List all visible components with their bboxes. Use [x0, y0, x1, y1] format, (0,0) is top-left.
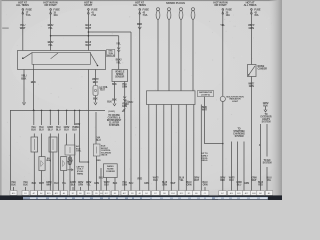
connector pin B14	[169, 191, 177, 196]
connector pin A8	[257, 191, 264, 196]
wire condenser left leg to connector	[106, 178, 108, 191]
connector pin B10	[85, 191, 92, 196]
wire coil feed from switch	[95, 70, 97, 86]
junction BLK/WHT at col5 wire	[222, 143, 224, 145]
inline connector arrow col4	[138, 27, 141, 29]
caption strip	[23, 197, 268, 200]
svg-text:BLK: BLK	[113, 183, 118, 185]
wire ignition switch down to connector	[87, 70, 89, 191]
wire distributor pin 6 to connector	[185, 105, 187, 191]
wire col4 RED full drop	[139, 13, 141, 190]
svg-text:RED: RED	[96, 160, 101, 162]
scan speckle texture	[6, 6, 278, 192]
svg-text:YEL/BLK: YEL/BLK	[11, 182, 16, 186]
svg-text:GRN: GRN	[94, 183, 99, 185]
wire distributor pin 1 to connector	[148, 105, 150, 191]
connector pin A1	[136, 191, 143, 196]
wire GRN/YEL bus to junction x88.4	[80, 110, 89, 162]
ignition switch outer housing	[18, 51, 106, 70]
wire bus drop 5	[66, 110, 68, 125]
in-line connector rings on idle control wire	[68, 157, 71, 160]
svg-text:BLU/WHT: BLU/WHT	[85, 23, 91, 30]
wire VSS signal down to connector	[124, 82, 126, 191]
wire condenser right leg to connector	[114, 178, 116, 191]
connector pin B7	[152, 191, 160, 196]
wire distributor pin 5 to connector	[178, 105, 180, 191]
in-line connector VSS signal	[123, 97, 126, 99]
connector pin B1	[22, 191, 29, 196]
junction GRN/YEL at x88.4	[88, 161, 90, 163]
svg-text:YEL/BLK: YEL/BLK	[23, 182, 28, 186]
wire stub to connector x13.5	[13, 187, 15, 191]
wire bus drop 4	[57, 110, 59, 125]
wire resistor R1 to connector	[33, 152, 35, 191]
svg-text:(G101): (G101)	[108, 111, 115, 113]
A/C idle control solenoid box	[65, 145, 75, 155]
svg-text:YEL/GRN: YEL/GRN	[122, 83, 127, 89]
svg-text:GRN: GRN	[144, 183, 149, 185]
svg-text:14ABLU: 14ABLU	[96, 136, 101, 141]
wire x131 to connector	[130, 149, 132, 191]
scan left edge shadow	[0, 0, 2, 200]
connector pin B4	[143, 191, 151, 196]
fuse F42B (col 6)	[251, 9, 253, 15]
wire resistor box 2 to connector	[52, 152, 54, 191]
junction bus drop 1	[33, 110, 35, 112]
svg-text:GRN/WHT: GRN/WHT	[46, 182, 52, 186]
junction col3/branch	[88, 31, 90, 33]
wire VSS ground stub	[114, 82, 116, 104]
wire col1 fuse to ignition switch	[22, 13, 24, 50]
caption lighter segments	[150, 197, 212, 199]
ignition switch inner detail box	[32, 52, 91, 64]
wire BLK from switch to ground bus	[33, 70, 35, 111]
connector pin A12	[243, 191, 250, 196]
wire spark plug 3 to distributor	[180, 19, 182, 90]
spark plug 2	[167, 8, 171, 20]
svg-text:BLU/WHT: BLU/WHT	[85, 40, 91, 47]
connector pin B2	[70, 191, 77, 196]
svg-text:YEL: YEL	[116, 42, 121, 46]
arrow terminal VSS ground	[113, 103, 116, 105]
resistor block R2	[49, 137, 57, 152]
connector pin B9	[185, 191, 193, 196]
connector pin A9	[77, 191, 84, 196]
junction bus drop 5	[66, 110, 68, 112]
connector pin A4	[61, 191, 68, 196]
spark plug 1	[156, 8, 160, 20]
arrow into cruise note	[122, 109, 126, 112]
fuse F42 (col 4)	[139, 9, 141, 15]
svg-text:BLU: BLU	[128, 101, 133, 104]
connector pin A7	[30, 191, 37, 196]
wire bus drop 2	[41, 110, 43, 125]
svg-text:WHT/GRN: WHT/GRN	[248, 83, 254, 89]
svg-text:GRN/ORN: GRN/ORN	[78, 182, 84, 186]
wire stub to connector x80.5	[80, 187, 82, 191]
wire down to vehicle speed sensor	[118, 36, 120, 70]
svg-text:BLU/GRN: BLU/GRN	[162, 182, 167, 186]
wire below coil test connector	[95, 96, 97, 103]
svg-text:YEL/BLK: YEL/BLK	[31, 126, 36, 132]
junction bus drop 2	[41, 110, 43, 112]
in-line connector on VSS feed	[117, 48, 120, 50]
svg-text:GRN/WHT: GRN/WHT	[251, 178, 257, 182]
junction bus drop 6	[74, 110, 76, 112]
svg-text:HOT INSTART: HOT INSTART	[84, 0, 93, 7]
distributor assembly	[147, 91, 196, 105]
wire stub to connector x25.5	[25, 187, 27, 191]
svg-text:BLU/ORN: BLU/ORN	[203, 182, 208, 186]
condenser contact dot	[248, 74, 249, 75]
svg-text:BLK: BLK	[112, 83, 117, 86]
wire diode D2 to connector	[63, 171, 65, 191]
arrow right stub	[264, 110, 267, 112]
wire WHT/GRN condenser to connector	[250, 77, 252, 191]
connector pin A2	[38, 191, 45, 196]
wire distributor pin 8 to connector	[200, 105, 202, 191]
svg-text:YEL: YEL	[220, 23, 225, 27]
svg-text:RED: RED	[138, 179, 143, 181]
wire bus drop 6	[74, 110, 76, 125]
connector pin A21	[53, 191, 60, 196]
svg-text:BLK: BLK	[32, 183, 37, 185]
svg-text:GRN/WHT: GRN/WHT	[194, 178, 200, 182]
fuse F17 (col 1)	[22, 9, 24, 15]
wire BLK/WHT distributor to col5	[205, 97, 223, 144]
svg-text:YEL/BLU: YEL/BLU	[56, 126, 61, 132]
svg-text:YEL/BLU: YEL/BLU	[39, 126, 44, 132]
wire starting system 3 to connector	[243, 142, 245, 191]
wire feed into idle boost box	[95, 112, 97, 144]
svg-text:GRN: GRN	[244, 183, 249, 185]
junction col2	[50, 35, 52, 37]
svg-text:BLK: BLK	[31, 80, 36, 84]
ignition switch contact left	[23, 53, 32, 59]
svg-text:WHT: WHT	[39, 183, 45, 185]
svg-text:YEL/BLK: YEL/BLK	[21, 74, 27, 81]
wire drop 2 to connector	[49, 134, 51, 191]
svg-text:YEL: YEL	[62, 183, 67, 185]
wire col2 fuse to ignition switch	[50, 13, 52, 50]
connector pin A15	[45, 191, 52, 196]
svg-text:TO A/CSYSTEM: TO A/CSYSTEM	[263, 159, 272, 164]
junction bus drop 3	[50, 110, 52, 112]
wire drop 4 into A/C idle box	[66, 134, 68, 146]
wire node x131 down to A/C controls	[130, 32, 132, 146]
label box IGNITION SWITCH	[107, 50, 115, 57]
svg-text:WHT/BLU: WHT/BLU	[92, 77, 99, 84]
contact pivot left	[22, 57, 24, 59]
caption text dashes	[30, 198, 267, 199]
radio noise condenser box	[104, 164, 118, 178]
svg-text:GRN/RED: GRN/RED	[220, 178, 226, 182]
wire distributor pin 7 to connector	[193, 105, 195, 191]
wire right stub	[265, 107, 267, 111]
fuse F41 (col 3)	[88, 9, 90, 15]
connector pin B5	[93, 191, 100, 196]
svg-text:WHT: WHT	[171, 183, 177, 185]
wire to connector x101	[100, 168, 102, 191]
wire bus drop 3	[49, 110, 51, 125]
scan right edge shadow	[269, 0, 282, 200]
wire drop 3 to connector	[57, 134, 59, 191]
wire distributor pin 4 to connector	[170, 105, 172, 191]
connector pin A16	[250, 191, 257, 196]
connector pin B8	[112, 191, 119, 196]
wire col5 below connector to bottom	[222, 102, 224, 191]
svg-text:BLU/RED: BLU/RED	[258, 182, 263, 186]
noise condenser (ignition coil)	[248, 65, 257, 77]
connector pin B12	[103, 191, 110, 196]
diode D1 box	[39, 157, 45, 171]
connector pin A7	[219, 191, 226, 196]
wire bus drop 1	[33, 110, 35, 125]
ignition switch contact right	[91, 53, 98, 65]
svg-text:RED: RED	[137, 22, 142, 26]
svg-text:BLU: BLU	[129, 183, 134, 185]
wire YEL/BLK from switch	[23, 70, 25, 104]
connector pin B6	[161, 191, 169, 196]
wire diode D1 to connector	[41, 171, 43, 191]
connector pin A3	[99, 191, 104, 196]
wire stub to connector x205.0	[204, 187, 206, 191]
wire stub to connector x73.0	[72, 187, 74, 191]
wire drop 5 to connector	[74, 134, 76, 191]
connector pin B13	[178, 191, 186, 196]
label box DISTRIBUTOR CONT'D	[198, 91, 214, 97]
bottom scan dark band	[0, 195, 282, 200]
svg-text:BLK/YEL: BLK/YEL	[116, 58, 122, 65]
svg-text:BLU: BLU	[99, 178, 104, 180]
resistor block R1	[31, 137, 38, 152]
wire idle boost box to connector	[96, 156, 98, 191]
wire spark plug 2 to distributor	[168, 19, 170, 90]
svg-text:SPARK PLUGS: SPARK PLUGS	[166, 1, 185, 5]
svg-text:BLK: BLK	[107, 100, 112, 103]
wire spark plug 1 to distributor	[157, 19, 159, 90]
junction bus drop 4	[58, 110, 60, 112]
connector pin B3	[129, 191, 136, 196]
ground bus wire left side	[10, 110, 105, 190]
wire into resistor box 1	[33, 134, 35, 138]
wire col6 fuse to noise condenser	[250, 13, 252, 64]
connector pin A19	[235, 191, 242, 196]
fuse F15 (col 2)	[50, 9, 52, 15]
svg-text:BLU/ORN: BLU/ORN	[187, 182, 192, 186]
spark plug 3	[179, 8, 183, 20]
svg-text:BLU: BLU	[54, 183, 59, 185]
svg-text:BLK/YEL: BLK/YEL	[48, 40, 54, 47]
svg-text:GRN/BLU: GRN/BLU	[47, 126, 53, 132]
wire bus col2-col3 to VSS feed	[51, 35, 119, 37]
spark plug 4	[191, 8, 195, 20]
arrow terminal coil test	[94, 102, 97, 104]
wire branch col3 to node x131	[88, 31, 131, 33]
svg-text:BLK: BLK	[112, 99, 117, 102]
svg-text:YEL/GRN: YEL/GRN	[122, 182, 127, 186]
fuse F25 (col 5)	[222, 9, 224, 15]
wire upper to A/C note	[266, 124, 268, 157]
wire spark plug 4 to distributor	[192, 19, 194, 90]
wire starting system 1 to connector	[231, 142, 233, 191]
svg-text:UP TOEARLYPROD.MDLS: UP TOEARLYPROD.MDLS	[201, 153, 208, 162]
vehicle speed sensor	[112, 70, 128, 82]
wire to connector x260.5	[260, 124, 262, 191]
connector pin C1	[201, 191, 209, 196]
ignition switch contact mid	[51, 53, 58, 59]
wire starting system 2 to connector	[237, 142, 239, 191]
svg-text:YEL/WHT: YEL/WHT	[20, 23, 26, 30]
contact pivot right	[97, 65, 99, 67]
diode D2 box	[61, 157, 67, 171]
svg-text:WHT/GRN: WHT/GRN	[248, 23, 255, 30]
wire A/C system to connector	[266, 167, 268, 191]
connector pin A6	[265, 191, 272, 196]
coil test connector	[93, 86, 98, 96]
wire inner link	[33, 64, 35, 69]
wire x131 into A/C controls continue	[130, 146, 132, 149]
svg-text:HOT IN RUNOR START: HOT IN RUNOR START	[43, 0, 57, 7]
connector pin A5	[193, 191, 201, 196]
svg-text:BLK/YEL: BLK/YEL	[48, 23, 54, 30]
junction col3	[88, 35, 90, 37]
arrow to coil cap note	[68, 169, 74, 171]
wire col3 fuse to ignition switch	[87, 13, 89, 50]
svg-text:HOT IN RUNOR START: HOT IN RUNOR START	[213, 0, 227, 7]
page margin mark	[2, 27, 9, 29]
junction BLK at bus	[33, 110, 35, 112]
arrow terminal YEL/BLK	[22, 102, 25, 104]
wire distributor pin 3 to connector	[163, 105, 165, 191]
idle boost solenoid valve box	[93, 144, 100, 156]
wire col5 fuse down to junction connector	[222, 13, 224, 96]
wire A/C idle box to connector	[69, 155, 71, 191]
svg-text:BLK: BLK	[93, 98, 98, 101]
connector pin A10	[10, 191, 17, 196]
wire into diode 1	[41, 134, 43, 157]
multi-function indicator connector C1	[220, 96, 225, 101]
connector pin A14	[228, 191, 235, 196]
scan top edge shadow	[0, 0, 282, 2]
connector pin A17	[121, 191, 128, 196]
svg-text:YEL/BLU: YEL/BLU	[124, 100, 129, 106]
junction bus drop GRN/YEL	[79, 110, 81, 112]
svg-text:BLK/WHT: BLK/WHT	[202, 106, 208, 112]
wire distributor pin 2 to connector	[155, 105, 157, 191]
